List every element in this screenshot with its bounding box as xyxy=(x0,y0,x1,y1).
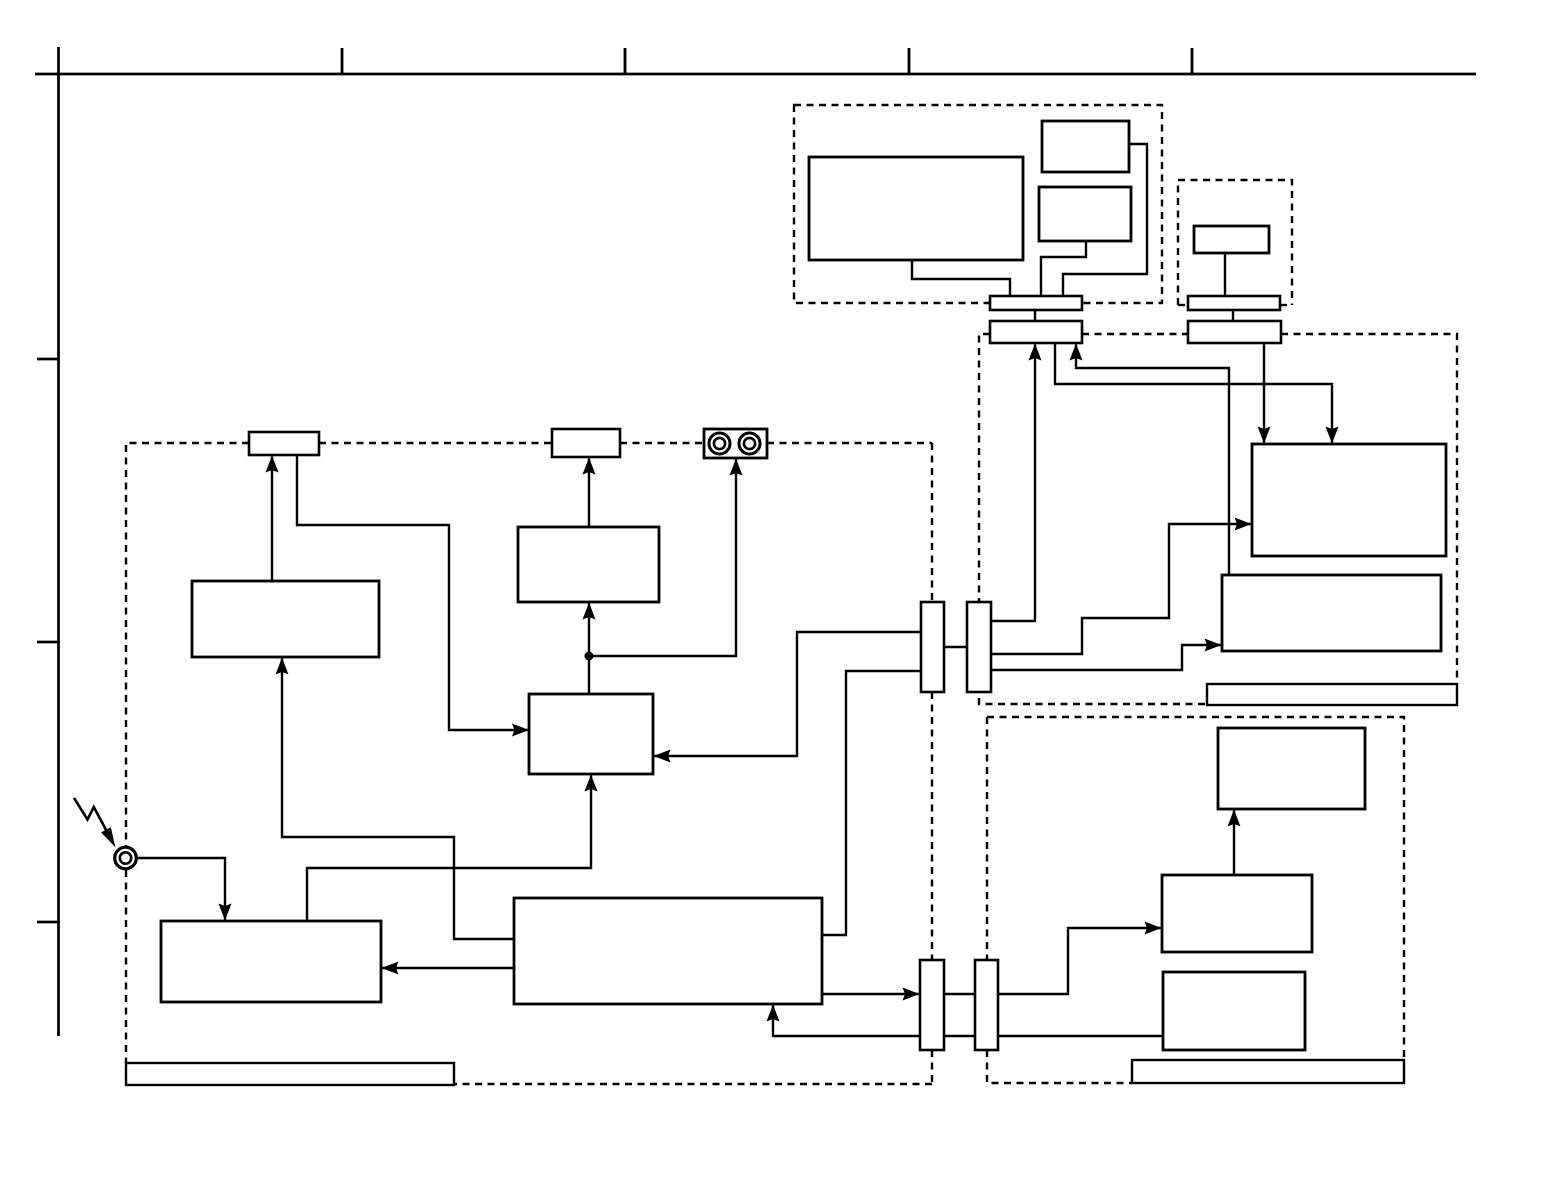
wire: bottom interface to bottom-right middle block xyxy=(998,928,1161,994)
label bar: receiver display module xyxy=(1207,684,1457,705)
wire: bottom-right lower block to bottom interface xyxy=(998,1035,1163,1037)
frame top border line xyxy=(35,73,1476,76)
wire: upper link between bottom interface halves xyxy=(944,993,975,995)
frame left tick 3 xyxy=(37,921,59,924)
wire: link between monitor plug and socket xyxy=(1034,310,1036,321)
box: antenna matching block S1 xyxy=(249,432,319,455)
wire: display driver up to main board socket xyxy=(1076,345,1229,576)
connector bar: mid interface right half xyxy=(967,602,991,692)
connector bar: monitor plug (upper half) xyxy=(990,296,1082,310)
frame left tick 2 xyxy=(37,641,59,644)
frame top tick 3 xyxy=(908,48,911,74)
wire: link between accessory plug and socket xyxy=(1232,310,1234,321)
box: monitor display xyxy=(809,157,1023,260)
wire: baseband to power amplifier xyxy=(383,967,515,969)
frame left tick 1 xyxy=(37,358,59,361)
box: audio filter block xyxy=(518,527,659,602)
box: mixer block xyxy=(529,694,653,774)
frame top tick 4 xyxy=(1191,48,1194,74)
box: bottom-right lower block xyxy=(1163,972,1305,1050)
box: local oscillator block xyxy=(192,581,379,657)
wire: monitor display down to monitor plug xyxy=(912,260,1010,296)
box: power amplifier block xyxy=(161,921,381,1002)
wire: accessory inner box down to accessory plug xyxy=(1224,253,1226,296)
connector bar: accessory plug (upper half) xyxy=(1188,296,1280,310)
wire: power amplifier to mixer bottom xyxy=(307,776,591,922)
box: monitor unit small box B xyxy=(1039,187,1131,241)
box: display panel (right group) xyxy=(1252,444,1446,556)
wire: mid interface to mixer right input xyxy=(655,632,922,756)
wire: junction to speaker xyxy=(589,460,736,657)
wire: bottom interface to baseband bottom input xyxy=(773,1006,920,1037)
connector bar: main board socket (lower half) xyxy=(990,321,1082,343)
antenna: lightning strike arrow xyxy=(74,798,115,847)
wire: lower link between bottom interface halves xyxy=(944,1035,975,1037)
wire: mid interface to display panel left xyxy=(991,524,1251,654)
connector bar: bottom interface right half xyxy=(975,960,998,1050)
wire: mid interface up to main board socket xyxy=(991,345,1035,622)
wire: accessory socket to display panel top xyxy=(1263,343,1265,443)
wire: bottom-right middle block to top block xyxy=(1233,811,1235,876)
frame top tick 2 xyxy=(624,48,627,74)
box: accessory unit inner box xyxy=(1194,226,1269,253)
wire: mixer to filter block xyxy=(588,604,590,695)
frame top tick 1 xyxy=(341,48,344,74)
box: indicator block S2 xyxy=(552,429,620,457)
antenna: feed point double circle xyxy=(115,847,137,869)
wire: filter block to S2 xyxy=(588,459,590,528)
wire: LO block to S1 xyxy=(271,457,273,582)
wire: baseband upper output to mid interface xyxy=(822,671,921,935)
speaker: twin-cone speaker box xyxy=(704,429,767,458)
connector bar: bottom interface left half xyxy=(920,960,944,1050)
node: junction on mixer-filter wire xyxy=(585,652,594,661)
frame left border line xyxy=(57,47,60,1036)
box: bottom-right middle block xyxy=(1162,875,1312,952)
wire: antenna to power amplifier xyxy=(137,858,225,920)
label bar: bottom-right module xyxy=(1132,1060,1404,1083)
dashed enclosure: bottom-right module xyxy=(987,717,1404,1083)
wire: baseband to LO block xyxy=(282,659,514,940)
label bar: transmitter module xyxy=(126,1063,454,1085)
dashed enclosure: small accessory unit xyxy=(1178,180,1292,305)
wire: main board socket to display panel top xyxy=(1055,343,1332,443)
wire: monitor small box A to monitor plug xyxy=(1063,144,1147,296)
wire: link between mid interface halves xyxy=(944,646,967,648)
wire: S1 to mixer left input xyxy=(297,455,528,730)
wire: baseband to bottom interface xyxy=(822,993,919,995)
dashed enclosure: receiver display module (right group) xyxy=(979,334,1457,704)
wire: monitor small box B down to monitor plug xyxy=(1041,241,1086,296)
box: display driver (right group) xyxy=(1222,575,1441,651)
box: baseband controller block xyxy=(514,898,822,1004)
connector bar: accessory socket (lower half) xyxy=(1188,321,1281,343)
dashed enclosure: monitor unit (top middle group) xyxy=(794,105,1162,303)
wire: mid interface to display driver left xyxy=(991,645,1221,670)
box: bottom-right top block xyxy=(1218,728,1365,809)
dashed enclosure: transmitter module (left group) xyxy=(126,443,932,1084)
box: monitor unit small box A xyxy=(1042,121,1129,172)
connector bar: mid interface left half xyxy=(921,602,944,692)
